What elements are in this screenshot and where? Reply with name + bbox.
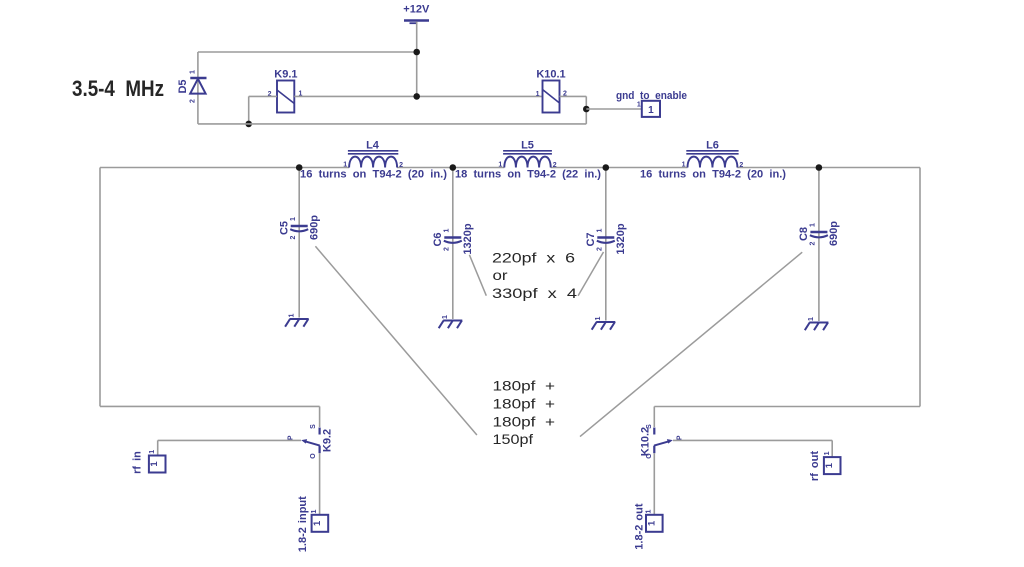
svg-text:1: 1 — [824, 451, 831, 455]
wire K9.1 pin2 left — [249, 95, 277, 97]
svg-text:2: 2 — [189, 99, 196, 103]
wire bus segment 3 — [551, 167, 688, 169]
ground under C8 — [805, 317, 829, 330]
wire K10.2 O down — [653, 453, 655, 514]
capacitor C6 — [432, 232, 462, 246]
wire D5 branch vertical — [197, 52, 199, 124]
svg-text:P: P — [288, 435, 295, 440]
port rf in — [149, 456, 166, 473]
svg-text:690p: 690p — [828, 221, 840, 246]
inductor L5 — [503, 139, 552, 167]
svg-text:D5: D5 — [177, 79, 189, 93]
svg-text:P: P — [676, 435, 683, 440]
ground under C7 — [592, 316, 616, 329]
wire K10.1 pin2 right — [560, 95, 587, 97]
svg-text:1: 1 — [149, 461, 160, 467]
svg-text:1: 1 — [288, 313, 295, 317]
wire right bottom rail — [654, 406, 920, 408]
svg-text:220pf x 6: 220pf x 6 — [492, 250, 575, 266]
junction C6 — [450, 164, 457, 171]
svg-text:1: 1 — [810, 223, 817, 227]
svg-text:O: O — [310, 453, 317, 459]
capacitor C7 — [585, 232, 615, 246]
svg-text:K10.1: K10.1 — [536, 69, 565, 81]
wire right border — [919, 168, 921, 407]
wire C7 branch — [605, 168, 607, 321]
switch K10.2 — [640, 427, 673, 456]
wire +12V vertical — [416, 22, 418, 97]
svg-text:180pf +: 180pf + — [493, 378, 556, 394]
port 1.8-2 input — [312, 515, 329, 532]
svg-text:K9.2: K9.2 — [322, 429, 334, 452]
svg-text:1: 1 — [290, 217, 297, 221]
svg-text:1: 1 — [149, 450, 156, 454]
svg-text:rf out: rf out — [809, 451, 821, 481]
svg-text:180pf +: 180pf + — [493, 414, 556, 430]
svg-text:K9.1: K9.1 — [274, 69, 297, 81]
capacitor C5 — [278, 221, 308, 235]
svg-text:1.8-2 out: 1.8-2 out — [634, 503, 646, 550]
wire C8 branch — [818, 168, 820, 322]
svg-text:C6: C6 — [432, 232, 444, 246]
svg-text:C5: C5 — [278, 221, 290, 235]
svg-text:S: S — [646, 424, 653, 429]
svg-text:18 turns on T94-2 (22 in.: 18 turns on T94-2 (22 in.) — [455, 169, 601, 181]
wire left border — [99, 168, 101, 407]
svg-text:16 turns on T94-2 (20 in.: 16 turns on T94-2 (20 in.) — [300, 169, 447, 181]
wire K10.2 P horizontal — [673, 439, 832, 441]
svg-text:L4: L4 — [366, 139, 380, 151]
svg-text:1: 1 — [498, 162, 502, 169]
callout line C5 to 180pf note — [315, 246, 477, 435]
svg-text:1: 1 — [444, 228, 451, 232]
svg-text:1: 1 — [808, 317, 815, 321]
svg-text:3.5-4 MHz: 3.5-4 MHz — [72, 76, 164, 101]
inductor L6 — [686, 139, 738, 167]
svg-text:1: 1 — [824, 462, 835, 468]
svg-text:rf in: rf in — [132, 451, 144, 474]
svg-text:2: 2 — [597, 247, 604, 251]
svg-text:1: 1 — [312, 520, 323, 526]
wire down to rf in port — [157, 440, 159, 455]
svg-text:S: S — [310, 424, 317, 429]
svg-text:1: 1 — [311, 509, 318, 513]
wire K9.1 pin2 down — [248, 96, 250, 124]
wire K9.2 O down — [319, 453, 321, 514]
svg-text:2: 2 — [444, 247, 451, 251]
svg-text:O: O — [646, 453, 653, 459]
relay coil K9.1 — [274, 69, 297, 113]
svg-text:1: 1 — [648, 105, 654, 116]
ground under C5 — [285, 313, 309, 326]
svg-text:1.8-2 input: 1.8-2 input — [297, 496, 309, 552]
svg-text:1: 1 — [442, 315, 449, 319]
svg-text:1: 1 — [682, 162, 686, 169]
svg-text:1: 1 — [536, 91, 540, 98]
svg-text:690p: 690p — [309, 215, 321, 240]
svg-text:2: 2 — [290, 235, 297, 239]
callout line C6 to 220pf note — [469, 255, 486, 296]
svg-text:L6: L6 — [706, 139, 719, 151]
svg-text:C7: C7 — [585, 232, 597, 246]
svg-text:16 turns on T94-2 (20 in.: 16 turns on T94-2 (20 in.) — [640, 169, 786, 181]
wire top horizontal to D5 — [198, 51, 417, 53]
svg-text:180pf +: 180pf + — [493, 396, 556, 412]
diode D5 — [177, 78, 207, 94]
svg-text:1320p: 1320p — [462, 223, 474, 254]
wire down to K9.2 S — [319, 406, 321, 427]
wire bottom rail — [198, 123, 586, 125]
port box 1 (gnd to enable) — [642, 101, 660, 117]
wire K9.2 P horizontal — [158, 439, 301, 441]
svg-text:1: 1 — [343, 162, 347, 169]
svg-text:or: or — [493, 267, 508, 283]
callout line C8 to 180pf note — [580, 252, 802, 436]
svg-text:1320p: 1320p — [615, 223, 627, 254]
wire bus segment 1 — [100, 167, 349, 169]
svg-text:2: 2 — [810, 241, 817, 245]
wire C6 branch — [452, 168, 454, 320]
junction enable — [583, 106, 590, 113]
svg-text:150pf: 150pf — [493, 431, 534, 447]
wire left bottom rail — [100, 405, 320, 407]
svg-text:L5: L5 — [521, 139, 534, 151]
capacitor C8 — [798, 227, 828, 241]
svg-text:1: 1 — [637, 102, 641, 109]
wire bus segment 2 — [397, 167, 504, 169]
wire down to K10.2 S — [653, 407, 655, 428]
switch K9.2 — [301, 428, 333, 454]
wire C5 branch — [298, 168, 300, 318]
junction +12V mid — [413, 93, 420, 100]
svg-text:1: 1 — [597, 228, 604, 232]
junction top — [413, 49, 420, 56]
ground under C6 — [439, 315, 463, 328]
junction C5 — [296, 164, 303, 171]
wire bus segment 4 — [737, 167, 920, 169]
power +12V — [403, 4, 430, 24]
svg-text:1: 1 — [646, 520, 657, 526]
inductor L4 — [348, 139, 398, 167]
junction bottom-left — [245, 121, 252, 128]
wire down to rail — [585, 96, 587, 124]
relay coil K10.1 — [536, 69, 565, 113]
svg-text:1: 1 — [595, 316, 602, 320]
wire down to rf out port — [831, 440, 833, 457]
junction C7 — [603, 164, 610, 171]
wire to enable port — [586, 108, 642, 110]
svg-text:330pf x 4: 330pf x 4 — [492, 285, 577, 301]
port 1.8-2 out — [646, 515, 663, 532]
svg-text:+12V: +12V — [403, 4, 430, 16]
svg-text:C8: C8 — [798, 227, 810, 241]
port rf out — [824, 457, 841, 474]
wire coil mid horizontal — [294, 95, 542, 97]
svg-text:K10.2: K10.2 — [640, 427, 652, 456]
callout line C7 to 220pf note — [578, 252, 603, 296]
svg-text:1: 1 — [645, 509, 652, 513]
junction C8 — [816, 164, 823, 171]
svg-text:1: 1 — [189, 70, 196, 74]
